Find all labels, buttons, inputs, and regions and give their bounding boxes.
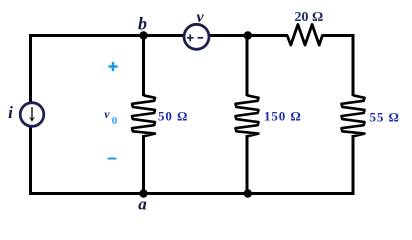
value label 20 ohm <box>295 10 324 25</box>
resistor 50 ohm zigzag <box>132 95 155 136</box>
label b <box>138 14 147 34</box>
label v <box>196 9 204 26</box>
svg-text:a: a <box>138 195 147 214</box>
resistor 150 ohm zigzag <box>236 95 259 136</box>
svg-text:i: i <box>8 103 13 122</box>
wire: middle branch upper stub <box>246 34 249 96</box>
svg-text:55 Ω: 55 Ω <box>370 110 400 125</box>
wire: node b branch lower stub <box>142 135 145 195</box>
resistor 55 ohm zigzag <box>342 95 365 136</box>
svg-text:v: v <box>104 107 110 121</box>
wire: right branch lower stub <box>352 135 355 195</box>
svg-text:20 Ω: 20 Ω <box>295 10 324 25</box>
junction dot bottom of 150 ohm branch <box>244 189 252 197</box>
label i <box>8 103 13 122</box>
voltage source V (circle with plus minus) <box>184 24 209 49</box>
polarity plus for v0 <box>108 62 117 71</box>
label v0 <box>104 107 118 127</box>
label a <box>138 195 147 214</box>
svg-text:v: v <box>196 9 204 26</box>
wire: top rail right of 20ohm resistor <box>322 34 354 37</box>
wire: right branch upper stub <box>352 34 355 96</box>
svg-text:150 Ω: 150 Ω <box>264 109 302 124</box>
wire: middle branch lower stub <box>246 135 249 195</box>
wire: left vertical branch <box>29 34 32 195</box>
svg-text:b: b <box>138 14 147 34</box>
value label 150 ohm <box>264 109 302 124</box>
junction dot top of 150 ohm branch <box>244 31 252 39</box>
wire: node b branch upper stub <box>142 34 145 96</box>
svg-text:50 Ω: 50 Ω <box>158 109 188 124</box>
value label 50 ohm <box>158 109 188 124</box>
node b (junction dot) <box>139 31 147 39</box>
wire: bottom rail <box>29 192 355 195</box>
value label 55 ohm <box>370 110 400 125</box>
current source I (circle with down arrow) <box>20 103 44 127</box>
node a (junction dot) <box>139 189 147 197</box>
wire: top rail from left corner to 20ohm resistor <box>31 34 289 37</box>
polarity minus for v0 <box>108 158 117 160</box>
svg-text:0: 0 <box>112 115 118 127</box>
resistor 20 ohm zigzag (horizontal) <box>287 25 322 46</box>
